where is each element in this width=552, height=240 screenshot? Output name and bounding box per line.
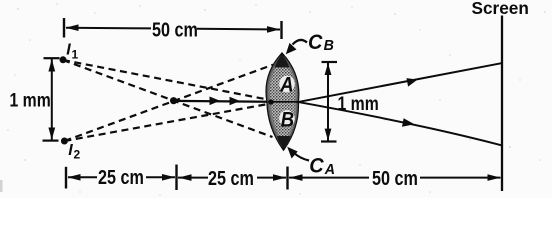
svg-text:50 cm: 50 cm xyxy=(372,166,418,189)
arrow CB to lens top tip xyxy=(293,40,308,45)
dimension bottom 25cm first right arrowhead xyxy=(162,174,175,181)
dimension top 50cm line left segment xyxy=(66,27,151,30)
dimension top 50cm left tick xyxy=(63,18,65,38)
dimension right 1mm bottom bar xyxy=(321,140,337,142)
lens cut line xyxy=(268,101,298,103)
dimension bottom 50cm right arrowhead xyxy=(488,174,501,181)
svg-text:25 cm: 25 cm xyxy=(208,166,254,189)
dimension left 1mm top bar xyxy=(44,57,60,59)
svg-text:C: C xyxy=(308,30,324,54)
dimension right 1mm up arrowhead xyxy=(325,63,332,75)
dimension bottom 25cm second line left xyxy=(178,177,208,179)
refracted ray lower arrowhead xyxy=(402,118,415,127)
lens bottom tip dark xyxy=(277,136,291,149)
svg-text:A: A xyxy=(324,161,335,177)
dimension bottom 25cm second left arrowhead xyxy=(179,174,192,181)
dimension top 50cm left arrowhead xyxy=(66,24,79,31)
refracted ray upper to screen xyxy=(297,63,502,102)
lens inner edge shading right xyxy=(282,57,297,147)
refracted ray lower to screen xyxy=(297,102,502,146)
source I2 dot xyxy=(61,138,68,145)
arrow CA to lens bottom tip xyxy=(294,153,310,161)
dimension right 1mm line xyxy=(327,63,329,141)
dimension bottom 25cm second right arrowhead xyxy=(273,174,286,181)
dashed ray I1 to lens centre xyxy=(63,60,268,100)
lens inner edge shading left xyxy=(268,57,283,147)
dimension bottom tick 2 xyxy=(175,165,177,191)
dimension bottom tick 1 xyxy=(65,167,67,189)
dashed ray I2 through node P to lens top edge xyxy=(64,65,273,141)
svg-text:I: I xyxy=(66,42,71,59)
dimension bottom 25cm first left arrowhead xyxy=(68,174,81,181)
dimension left 1mm up arrowhead xyxy=(48,59,55,71)
dimension top 50cm right tick xyxy=(280,21,282,39)
dimension bottom 25cm second line right xyxy=(257,177,286,179)
svg-text:25 cm: 25 cm xyxy=(98,165,144,188)
dimension left 1mm bottom bar xyxy=(43,140,59,142)
dashed ray I2 to lens centre xyxy=(64,104,268,141)
dimension bottom 50cm left arrowhead xyxy=(290,174,303,181)
svg-text:B: B xyxy=(281,108,294,131)
dimension left 1mm down arrowhead xyxy=(48,128,55,140)
axis ray arrowhead 1 xyxy=(210,97,221,106)
dimension bottom tick 3 xyxy=(286,167,288,190)
dimension bottom 25cm first line right xyxy=(146,176,175,178)
dimension bottom 50cm line right xyxy=(420,177,501,179)
dimension left 1mm line xyxy=(51,59,53,140)
label B backing xyxy=(279,110,295,127)
node P dot at 25cm xyxy=(170,97,177,104)
dimension right 1mm top bar xyxy=(322,61,338,63)
svg-text:A: A xyxy=(279,74,293,97)
svg-text:2: 2 xyxy=(74,148,81,162)
svg-text:B: B xyxy=(324,38,335,54)
axis ray arrowhead 2 xyxy=(230,97,241,106)
svg-text:C: C xyxy=(309,154,325,178)
dimension bottom 50cm line left xyxy=(289,177,369,179)
source I1 dot xyxy=(60,56,67,63)
dimension right 1mm down arrowhead xyxy=(325,129,332,141)
lens body xyxy=(267,54,298,149)
dimension top 50cm right arrowhead xyxy=(267,26,280,33)
svg-text:1: 1 xyxy=(72,48,79,62)
svg-text:1 mm: 1 mm xyxy=(10,89,51,111)
refracted ray upper arrowhead xyxy=(407,78,418,87)
axis ray xyxy=(174,101,298,102)
arrow CA arrowhead xyxy=(287,147,298,159)
lens top tip dark xyxy=(275,54,290,68)
svg-text:50 cm: 50 cm xyxy=(152,18,198,41)
label A backing xyxy=(279,76,295,93)
svg-text:Screen: Screen xyxy=(472,0,529,18)
dashed ray I1 through node P to lens bottom edge xyxy=(63,60,273,137)
arrow CB arrowhead xyxy=(286,43,297,54)
dimension bottom 25cm first line left xyxy=(68,176,97,178)
junction blob at lens left edge xyxy=(268,99,273,104)
dimension top 50cm line right segment xyxy=(197,28,280,31)
screen line xyxy=(501,16,503,192)
